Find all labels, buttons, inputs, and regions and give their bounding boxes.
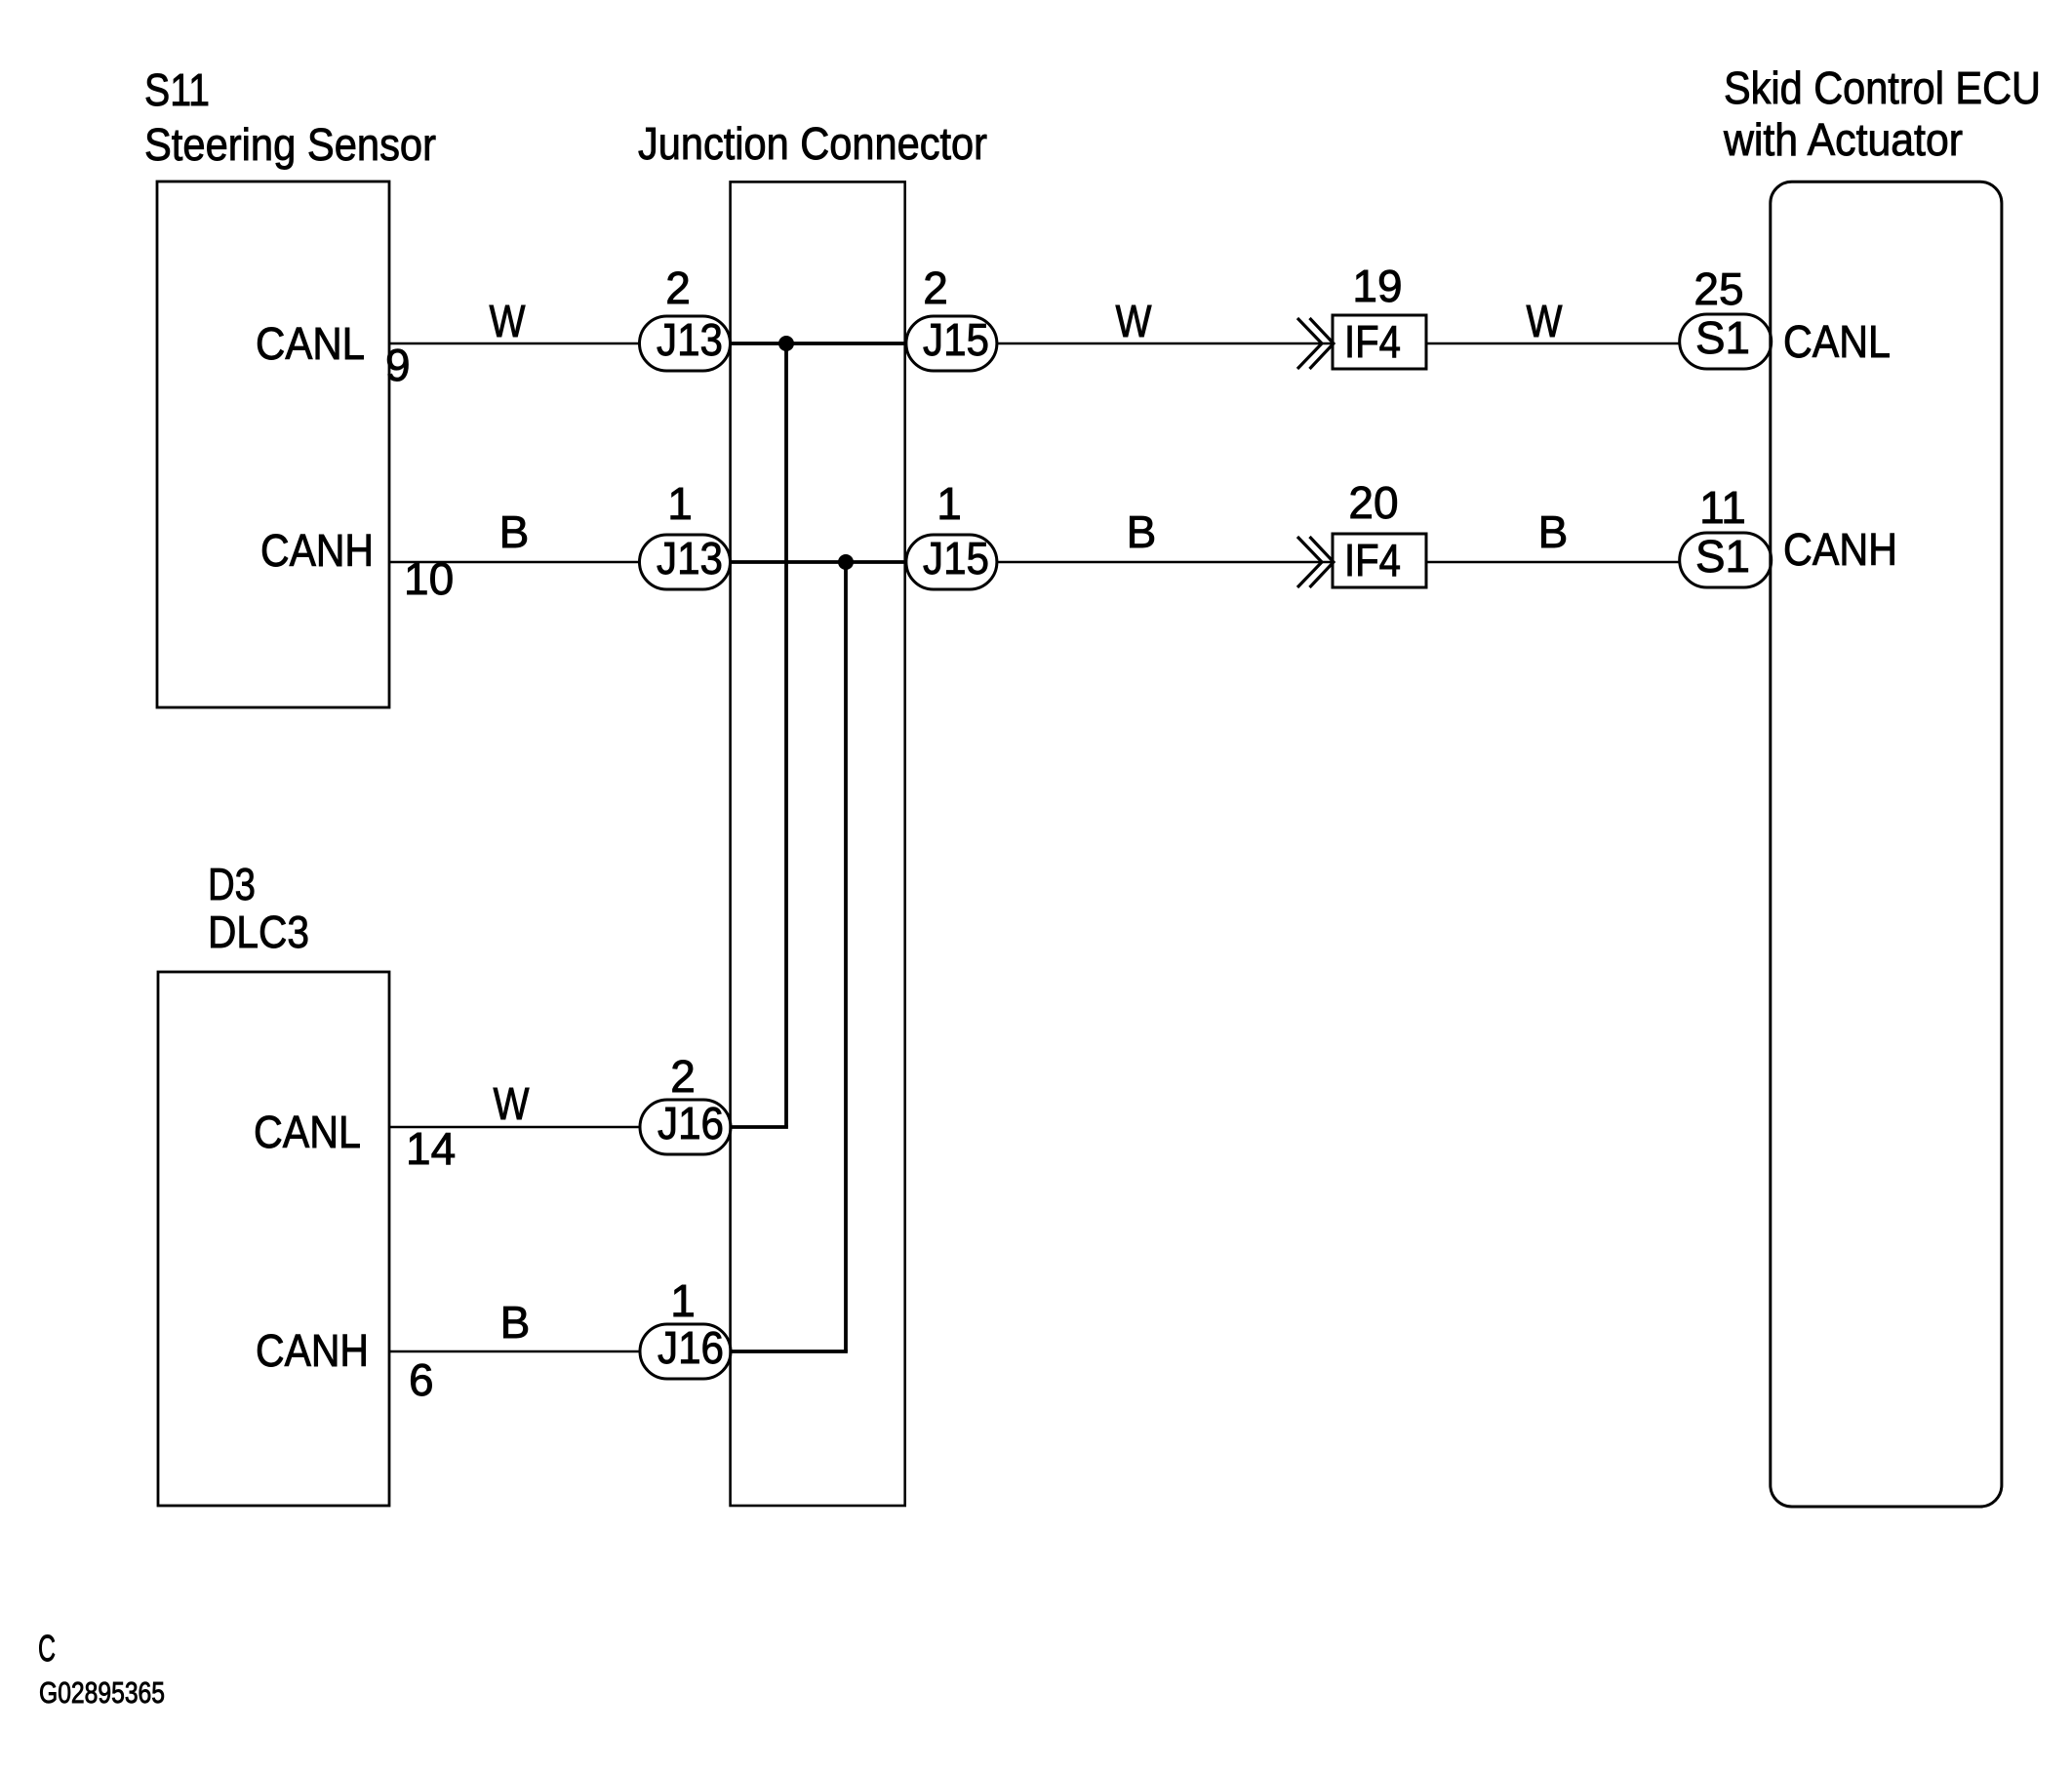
- connector oval S1 pin 25: [1680, 312, 1772, 369]
- box D3 DLC3: [158, 972, 389, 1506]
- shield symbol chevrons (CANL): [1297, 318, 1334, 369]
- connector oval J15 pin 2: [906, 314, 997, 371]
- connector oval S1 pin 11: [1680, 531, 1772, 587]
- connector box IF4 pin 19: [1333, 315, 1426, 369]
- svg-text:11: 11: [1699, 482, 1746, 533]
- wire IF4 to S1 (CANH, B): [1426, 561, 1680, 564]
- connector oval J13 pin 2: [640, 314, 731, 371]
- box Skid Control ECU with Actuator: [1771, 181, 2002, 1507]
- svg-text:CANL: CANL: [254, 1107, 361, 1157]
- junction dot CANH: [838, 554, 854, 570]
- wire J15 to IF4 (CANH, B): [996, 561, 1333, 564]
- wire S11 CANL to J13 (W): [389, 343, 640, 345]
- svg-text:25: 25: [1693, 263, 1743, 314]
- svg-text:1: 1: [667, 478, 693, 529]
- wire IF4 to S1 (CANL, W): [1426, 343, 1680, 345]
- svg-text:CANL: CANL: [256, 318, 365, 369]
- svg-text:J16: J16: [657, 1322, 724, 1373]
- svg-text:W: W: [1116, 296, 1152, 346]
- wire S11 CANH to J13 (B): [389, 561, 640, 564]
- svg-text:B: B: [1127, 506, 1157, 557]
- svg-text:14: 14: [406, 1123, 456, 1174]
- svg-text:DLC3: DLC3: [208, 907, 309, 957]
- svg-text:J13: J13: [657, 314, 723, 365]
- svg-text:D3: D3: [208, 859, 256, 909]
- svg-text:19: 19: [1352, 261, 1402, 311]
- svg-text:B: B: [1538, 506, 1569, 557]
- svg-text:CANL: CANL: [1783, 316, 1891, 367]
- wire J15 to IF4 (CANL, W): [996, 343, 1333, 345]
- box Junction Connector: [731, 181, 905, 1506]
- connector box IF4 pin 20: [1333, 534, 1426, 587]
- svg-text:IF4: IF4: [1344, 316, 1401, 367]
- connector oval J13 pin 1: [640, 533, 731, 589]
- svg-text:S1: S1: [1695, 312, 1750, 363]
- svg-text:C: C: [38, 1629, 56, 1670]
- svg-text:J15: J15: [923, 533, 989, 584]
- wire J16 pin2 stub to CANL bus: [730, 1125, 788, 1129]
- svg-text:2: 2: [665, 262, 691, 313]
- connector oval J15 pin 1: [906, 533, 997, 589]
- connector oval J16 pin 2: [640, 1098, 731, 1154]
- svg-text:J13: J13: [657, 533, 723, 584]
- svg-text:J16: J16: [657, 1098, 724, 1148]
- svg-text:Skid Control ECU: Skid Control ECU: [1724, 62, 2041, 113]
- svg-text:with Actuator: with Actuator: [1723, 114, 1963, 165]
- svg-text:CANH: CANH: [256, 1325, 369, 1376]
- wire J13 to J15 inside junction (CANH): [730, 560, 906, 564]
- svg-text:W: W: [490, 296, 526, 346]
- wire D3 CANH to J16 (B): [389, 1350, 641, 1353]
- svg-text:B: B: [500, 1297, 531, 1348]
- wire D3 CANL to J16 (W): [389, 1126, 641, 1129]
- svg-text:S11: S11: [144, 64, 210, 115]
- svg-text:6: 6: [409, 1354, 434, 1405]
- svg-text:2: 2: [670, 1051, 696, 1102]
- svg-text:1: 1: [936, 478, 962, 529]
- svg-text:1: 1: [670, 1275, 696, 1326]
- svg-text:B: B: [499, 506, 530, 557]
- svg-text:IF4: IF4: [1344, 535, 1401, 585]
- junction dot CANL: [778, 336, 794, 351]
- svg-text:S1: S1: [1695, 531, 1750, 582]
- wire J13 to J15 inside junction (CANL): [730, 342, 906, 345]
- svg-text:W: W: [1527, 296, 1563, 346]
- svg-text:9: 9: [385, 340, 411, 390]
- svg-text:J15: J15: [923, 314, 989, 365]
- wire vertical CANH bus: [844, 562, 848, 1351]
- svg-text:20: 20: [1348, 477, 1398, 528]
- svg-text:CANH: CANH: [1783, 524, 1897, 575]
- svg-text:W: W: [494, 1078, 530, 1129]
- shield symbol chevrons (CANH): [1297, 537, 1334, 587]
- svg-text:G02895365: G02895365: [39, 1675, 165, 1710]
- svg-text:Junction Connector: Junction Connector: [638, 118, 987, 169]
- wire vertical CANL bus: [784, 343, 788, 1127]
- svg-text:CANH: CANH: [260, 525, 374, 576]
- svg-text:2: 2: [923, 262, 948, 313]
- svg-text:Steering Sensor: Steering Sensor: [144, 119, 436, 170]
- wire J16 pin1 stub to CANH bus: [730, 1350, 848, 1353]
- box S11 Steering Sensor: [157, 181, 389, 707]
- connector oval J16 pin 1: [640, 1322, 731, 1379]
